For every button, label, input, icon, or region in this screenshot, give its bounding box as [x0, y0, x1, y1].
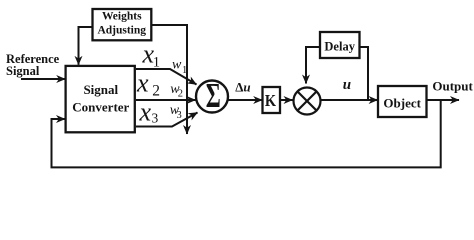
svg-text:u: u: [343, 77, 351, 93]
svg-text:1: 1: [182, 65, 187, 76]
svg-text:2: 2: [178, 89, 183, 100]
svg-text:Σ: Σ: [206, 77, 221, 115]
svg-text:Object: Object: [383, 96, 421, 111]
svg-text:Δu: Δu: [235, 80, 250, 95]
svg-text:2: 2: [152, 82, 160, 99]
svg-text:Signal: Signal: [83, 82, 118, 97]
svg-text:3: 3: [152, 110, 159, 125]
svg-text:Signal: Signal: [6, 64, 40, 78]
svg-text:Converter: Converter: [72, 100, 129, 115]
svg-text:w: w: [172, 57, 182, 72]
svg-text:x: x: [139, 97, 152, 126]
svg-text:Delay: Delay: [324, 40, 355, 54]
svg-text:x: x: [136, 69, 149, 98]
svg-text:1: 1: [153, 54, 160, 70]
svg-text:Weights: Weights: [102, 11, 142, 23]
svg-text:K: K: [265, 92, 276, 110]
svg-text:Output: Output: [432, 78, 473, 93]
svg-text:3: 3: [177, 110, 182, 121]
svg-text:Adjusting: Adjusting: [97, 25, 146, 37]
